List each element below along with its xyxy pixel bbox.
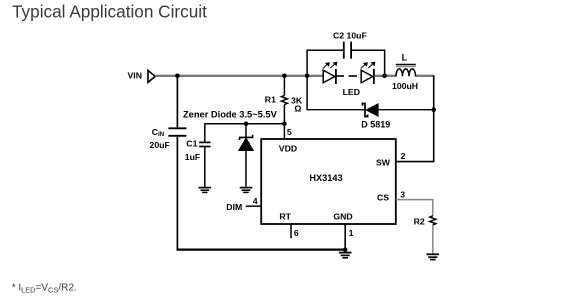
node junction dot at VIN branch: [175, 74, 180, 79]
wire left vertical upper (VIN junction down to CIN): [176, 76, 178, 128]
diode D5819 left wire: [307, 109, 364, 111]
inductor L windings: [396, 69, 416, 76]
svg-text:20uF: 20uF: [150, 140, 170, 150]
wire bottom ground rail: [177, 249, 346, 251]
ground for GND pin: [339, 253, 352, 258]
svg-text:LED: LED: [343, 87, 360, 97]
ground for C1: [199, 188, 212, 193]
zener diode ZD top lead: [245, 124, 247, 138]
svg-text:Typical Application Circuit: Typical Application Circuit: [12, 1, 207, 21]
node VIN port triangle: [148, 70, 155, 82]
svg-text:CS: CS: [377, 192, 389, 202]
capacitor C2 left wire: [306, 49, 343, 51]
resistor R2 bottom lead (gray): [432, 225, 434, 254]
pin 6 RT stub: [290, 224, 292, 238]
svg-text:HX3143: HX3143: [309, 173, 342, 183]
wire LED2 cathode to inductor: [375, 75, 397, 77]
wire C2 branch left vertical: [306, 50, 308, 110]
svg-text:5: 5: [287, 127, 292, 137]
pin 1 GND wire: [344, 224, 346, 250]
svg-text:3: 3: [400, 190, 405, 200]
resistor R2 top lead (gray): [432, 199, 434, 216]
capacitor C2 right wire: [352, 49, 385, 51]
diode D5819 right wire: [378, 109, 434, 111]
node junction dot R1 bottom / VDD net: [282, 122, 287, 127]
op IC U1 HX3143 body: [261, 139, 396, 224]
resistor R2 zigzag: [430, 216, 436, 225]
svg-text:DIM: DIM: [226, 202, 242, 212]
wire right vertical (rectifier node): [433, 75, 435, 162]
pin 3 CS wire (gray): [396, 199, 434, 201]
svg-text:4: 4: [253, 196, 258, 206]
zener diode ZD cathode bar with bent ends: [240, 135, 253, 140]
resistor R1 vertical lead top: [283, 76, 285, 96]
svg-text:Ω: Ω: [294, 103, 301, 113]
svg-text:6: 6: [294, 228, 299, 238]
wire dash between LEDs: [349, 75, 357, 77]
node junction dot C2 right at LED rail: [382, 74, 387, 79]
pin 4 DIM wire stub: [246, 205, 261, 207]
capacitor C2 plates: [343, 42, 345, 59]
node junction dot GND at bottom rail: [343, 247, 348, 252]
svg-text:GND: GND: [333, 211, 352, 221]
pin 2 SW wire: [396, 161, 435, 163]
svg-text:SW: SW: [376, 157, 391, 167]
capacitor CIN plates: [168, 127, 186, 129]
capacitor C1 bottom lead: [204, 147, 206, 187]
wire VDD net horizontal (C1 / zener to R1): [205, 123, 285, 125]
svg-text:VDD: VDD: [279, 144, 297, 154]
wire C2 branch right vertical: [384, 50, 386, 76]
ground for zener: [240, 188, 253, 193]
svg-text:VIN: VIN: [128, 70, 142, 80]
wire left vertical lower (CIN to bottom rail): [176, 136, 178, 250]
zener diode ZD bottom lead: [245, 151, 247, 187]
LED D2 triangle: [361, 70, 373, 83]
node junction dot LED loop left: [305, 74, 310, 79]
resistor R1 vertical lead bottom to VDD pin: [283, 105, 285, 140]
capacitor C1 plates: [199, 141, 210, 143]
LED D1 cathode bar: [335, 69, 337, 84]
svg-text:R1: R1: [265, 94, 276, 104]
inductor L core bars: [396, 64, 416, 66]
node junction dot at R1 top: [282, 74, 287, 79]
LED D2 arrows: [361, 62, 375, 68]
capacitor C1 top lead: [204, 123, 206, 142]
svg-text:1: 1: [349, 228, 354, 238]
svg-text:R2: R2: [414, 216, 425, 226]
node junction dot zener top: [244, 122, 249, 127]
LED D1 arrows: [323, 62, 337, 68]
wire stub after LED D1: [336, 75, 344, 77]
wire top rail VIN to LED1: [155, 75, 323, 77]
svg-text:C2 10uF: C2 10uF: [333, 30, 367, 40]
LED D1 triangle: [323, 70, 335, 83]
svg-text:2: 2: [401, 151, 406, 161]
svg-text:D 5819: D 5819: [361, 119, 390, 129]
diode D5819 triangle pointing left: [366, 104, 378, 117]
svg-text:RT: RT: [279, 211, 291, 221]
wire inductor to right corner: [415, 75, 434, 77]
svg-text:100uH: 100uH: [392, 81, 418, 91]
svg-text:1uF: 1uF: [185, 152, 200, 162]
svg-text:Zener Diode 3.5~5.5V: Zener Diode 3.5~5.5V: [183, 110, 278, 120]
resistor R1 zigzag: [281, 95, 287, 104]
ground for R2: [427, 254, 440, 259]
svg-text:C1: C1: [186, 139, 197, 149]
diode D5819 schottky cathode bar: [362, 104, 367, 117]
svg-text:L: L: [402, 53, 408, 63]
LED D2 cathode bar: [373, 69, 375, 84]
zener diode ZD triangle (anode below, pointing up): [239, 138, 254, 151]
node junction dot D5819 right: [431, 107, 436, 112]
